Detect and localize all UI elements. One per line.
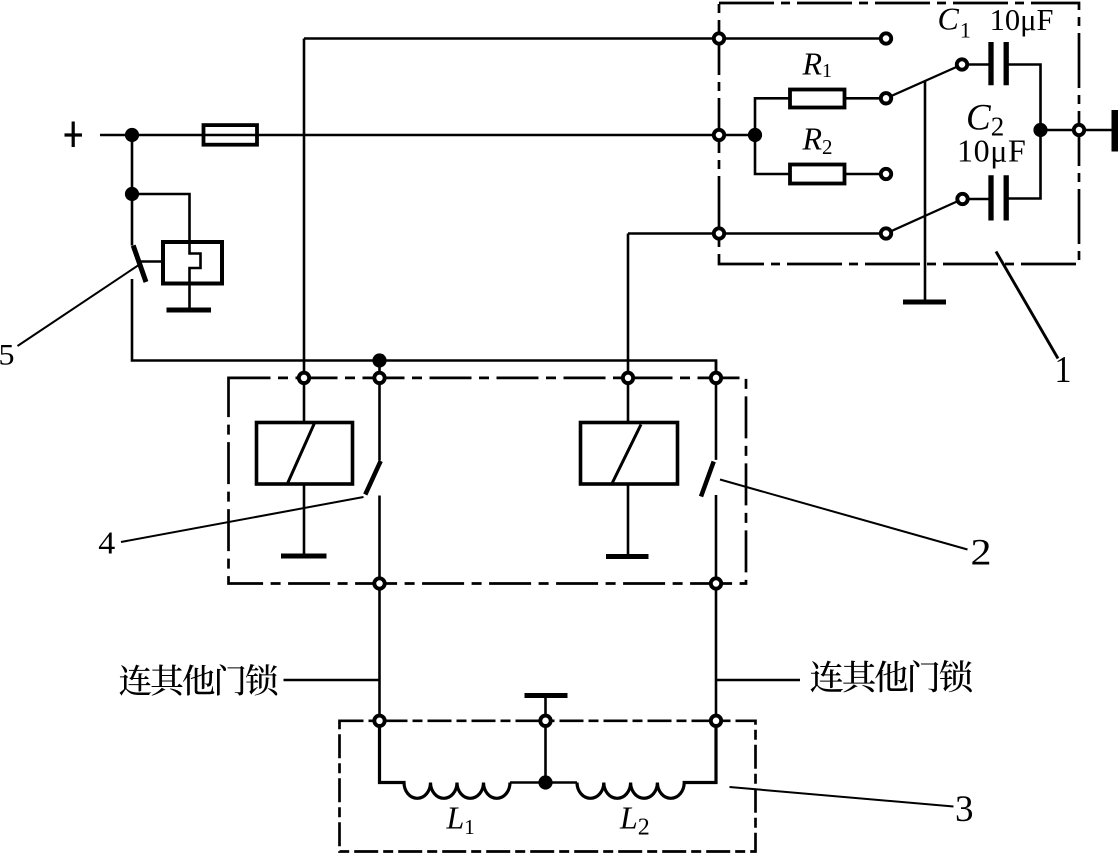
wire switch K1 upper xyxy=(378,361,381,461)
wire common to C2 xyxy=(963,198,989,201)
wire battery+ to fuse xyxy=(100,134,204,137)
terminal xyxy=(714,228,724,238)
wire C2 to output node xyxy=(1009,130,1041,199)
terminal xyxy=(711,578,721,588)
wire to other door locks right xyxy=(716,679,800,682)
svg-text:3: 3 xyxy=(955,789,974,830)
ground xyxy=(167,308,212,313)
capacitor C1 xyxy=(991,42,1006,85)
control unit box 1 xyxy=(719,3,1079,264)
terminal xyxy=(714,130,724,140)
fuse FU xyxy=(204,125,258,145)
actuator box 5 xyxy=(163,242,222,284)
terminal xyxy=(714,33,724,43)
terminal xyxy=(711,373,721,383)
wire coil K2 to ground xyxy=(627,484,630,554)
connector bar xyxy=(1112,110,1118,152)
wire R node to R1 xyxy=(755,98,790,135)
leader to 5 xyxy=(18,265,140,347)
leader to 1 xyxy=(996,252,1058,359)
wire into node R split xyxy=(719,134,755,137)
terminal xyxy=(881,228,891,238)
wire terminal to relay coil K1 xyxy=(303,378,306,423)
vertical wire x=628 xyxy=(627,234,630,378)
svg-text:4: 4 xyxy=(98,524,115,560)
terminal xyxy=(374,716,384,726)
terminal xyxy=(957,59,967,69)
svg-text:1: 1 xyxy=(1055,349,1072,391)
switch blade lower box1 xyxy=(886,199,963,234)
terminal xyxy=(957,194,967,204)
wire R1 to contact xyxy=(845,97,887,100)
leader to 3 xyxy=(730,787,954,807)
terminal xyxy=(374,373,384,383)
door lock relay box 2 xyxy=(229,378,747,584)
switch common link xyxy=(924,82,927,300)
wire output node to edge xyxy=(1041,129,1113,132)
relay coil K1 xyxy=(257,423,353,485)
ground xyxy=(281,554,327,559)
junction xyxy=(748,128,762,142)
svg-text:10μF: 10μF xyxy=(990,3,1054,37)
wire switch K2 lower xyxy=(715,495,718,721)
terminal xyxy=(299,373,309,383)
wire fuse to box1 left terminal xyxy=(257,134,719,137)
text connect other door locks right xyxy=(811,660,972,692)
leader to 2 xyxy=(720,480,968,550)
switch contact upper 5 xyxy=(131,194,134,246)
junction xyxy=(125,187,139,201)
wire R node to R2 xyxy=(755,135,790,174)
wire C1 to output node xyxy=(1009,65,1041,131)
svg-text:10μF: 10μF xyxy=(957,132,1026,168)
wire switch K1 lower xyxy=(378,496,381,722)
terminal xyxy=(881,93,891,103)
terminal xyxy=(540,716,550,726)
leader to 4 xyxy=(121,497,364,542)
ground xyxy=(903,300,946,305)
junction xyxy=(538,775,552,789)
lock motor box 3 xyxy=(340,721,756,852)
terminal xyxy=(1074,125,1084,135)
inductor L1 xyxy=(380,721,511,798)
terminal xyxy=(711,716,721,726)
switch blade K1 xyxy=(365,461,380,495)
wire R2 to contact xyxy=(845,173,887,176)
terminal xyxy=(623,373,633,383)
svg-text:5: 5 xyxy=(0,339,15,372)
text connect other door locks left xyxy=(120,664,278,696)
wire terminal to relay coil K2 xyxy=(627,378,630,423)
vertical wire x=304 xyxy=(303,39,306,378)
wire to other door locks left xyxy=(284,679,380,682)
terminal xyxy=(881,169,891,179)
switch blade 5 xyxy=(133,246,146,283)
wire actuator link to box xyxy=(140,260,163,263)
svg-text:2: 2 xyxy=(971,533,992,574)
inductor L2 xyxy=(577,721,716,798)
wire switch K2 upper xyxy=(715,361,718,460)
switch contact lower 5 and wire to bus xyxy=(132,279,716,378)
wire y=233 to contact xyxy=(628,232,886,235)
resistor R2 xyxy=(790,165,845,184)
wire node to actuator 5 xyxy=(132,194,201,308)
terminal xyxy=(881,33,891,43)
wire down from + node xyxy=(131,135,134,194)
ground xyxy=(525,696,568,715)
relay coil K2 xyxy=(581,423,678,485)
junction xyxy=(1033,123,1047,137)
wire center terminal to tap xyxy=(544,721,547,783)
plus terminal symbol xyxy=(65,122,83,148)
junction xyxy=(125,128,139,142)
wire coil K1 to ground xyxy=(303,484,306,554)
capacitor C2 xyxy=(991,175,1006,220)
ground xyxy=(606,554,649,559)
wire L1 to tap xyxy=(510,781,577,784)
switch blade K2 xyxy=(701,462,714,497)
junction xyxy=(372,353,386,367)
terminal xyxy=(374,578,384,588)
wire common to C1 xyxy=(962,63,989,66)
resistor R1 xyxy=(790,90,845,108)
top wire y=39 xyxy=(304,37,886,40)
switch blade upper box1 xyxy=(886,65,962,99)
